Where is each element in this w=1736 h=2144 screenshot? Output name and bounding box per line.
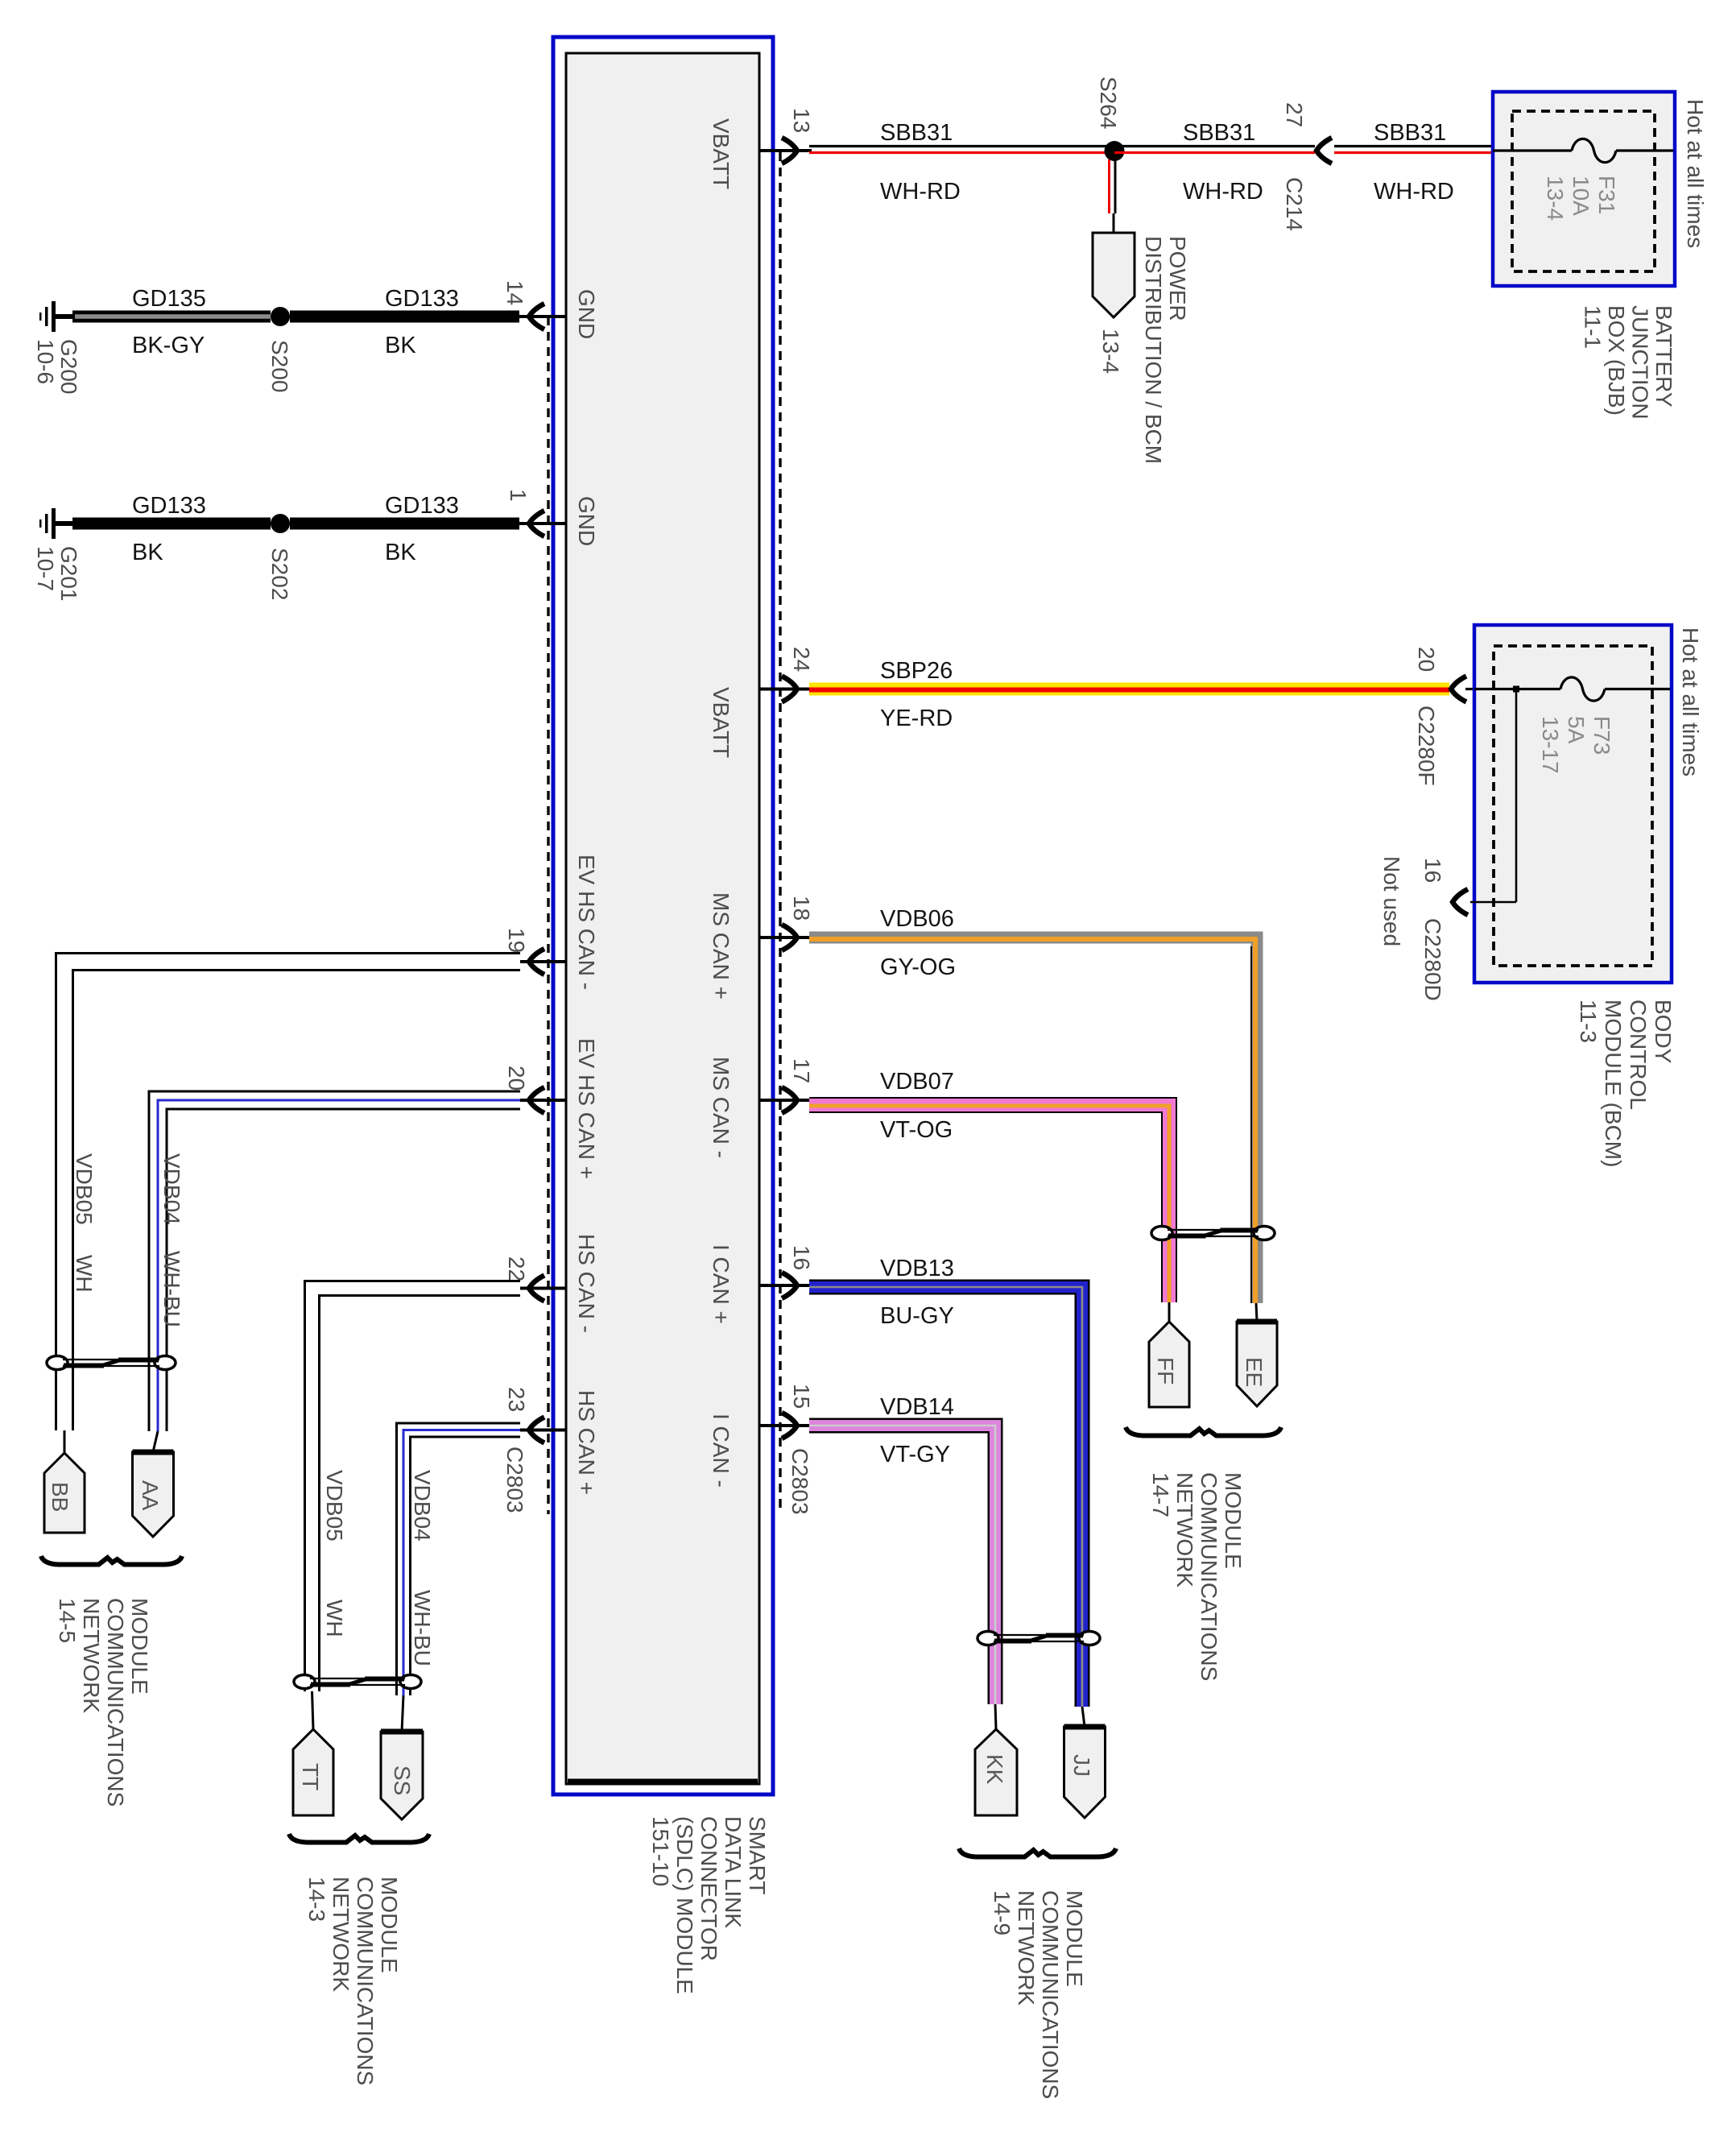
connector C2803 label (right): [787, 1448, 812, 1515]
svg-text:JUNCTION: JUNCTION: [1628, 305, 1653, 420]
svg-text:JJ: JJ: [1069, 1754, 1094, 1777]
svg-text:BK-GY: BK-GY: [132, 333, 205, 358]
svg-text:HS CAN +: HS CAN +: [574, 1390, 599, 1495]
svg-text:EE: EE: [1242, 1357, 1267, 1387]
pin 14 number: [502, 280, 527, 305]
svg-text:S202: S202: [267, 548, 292, 600]
svg-text:BK: BK: [385, 333, 416, 358]
svg-text:I CAN +: I CAN +: [709, 1244, 734, 1324]
module communications network 14-5 label: [55, 1598, 152, 1807]
fuse F73: [1560, 677, 1605, 701]
SDLC module box outline: [553, 37, 773, 1794]
pin 17 stub: [759, 1099, 812, 1102]
brace KK/JJ: [959, 1848, 1116, 1857]
pin 15 stub: [759, 1424, 812, 1427]
pin 13 terminal arrow: [782, 138, 797, 163]
pin 14 stub: [518, 315, 566, 318]
svg-text:11-3: 11-3: [1576, 1000, 1601, 1043]
svg-text:WH-RD: WH-RD: [880, 179, 961, 205]
connector C214 label: [1282, 177, 1307, 231]
wire GD133 BK (right segment): [290, 311, 519, 323]
Not used label: [1379, 856, 1404, 946]
svg-text:MODULE: MODULE: [377, 1877, 402, 1973]
svg-text:VDB13: VDB13: [880, 1256, 954, 1281]
wire VDB05 WH labels (pin 19): [72, 1153, 97, 1225]
S264 branch down: [1108, 159, 1110, 213]
connector TT: [293, 1729, 333, 1815]
wire VDB05 WH (pair): [64, 962, 520, 1430]
pin 23 terminal arrow: [529, 1418, 544, 1443]
BCM pin 20 arrow: [1451, 677, 1466, 702]
svg-text:Hot at all times: Hot at all times: [1678, 627, 1703, 776]
pin 22 number: [504, 1256, 529, 1281]
twisted pair crossing (FF/EE): [1151, 1227, 1172, 1240]
svg-text:23: 23: [504, 1387, 529, 1412]
wire VDB04 WH-BU (pair w/ blue): [158, 1100, 520, 1431]
svg-text:13-17: 13-17: [1538, 716, 1563, 774]
svg-text:S264: S264: [1096, 77, 1121, 129]
svg-text:WH: WH: [72, 1255, 97, 1293]
svg-text:DISTRIBUTION / BCM: DISTRIBUTION / BCM: [1141, 236, 1166, 464]
connector JJ label: [1069, 1754, 1094, 1777]
connector C2280D label: [1420, 918, 1445, 1001]
page ref 13-4 label: [1098, 329, 1123, 374]
svg-text:17: 17: [789, 1058, 814, 1083]
BJB name label: [1581, 305, 1677, 420]
svg-text:MODULE: MODULE: [127, 1598, 152, 1695]
svg-text:11-1: 11-1: [1581, 305, 1606, 349]
connector POWER DISTRIBUTION / BCM: [1093, 233, 1135, 317]
svg-text:VBATT: VBATT: [709, 687, 734, 758]
svg-text:15: 15: [789, 1384, 814, 1409]
wire GD133 BK (right segment): [290, 518, 519, 530]
twisted pair crossing (TT/SS): [294, 1675, 315, 1689]
twisted pair crossing (BB/AA): [47, 1356, 68, 1370]
connector AA label: [138, 1480, 163, 1511]
pin 19 number: [504, 928, 529, 953]
svg-text:GD135: GD135: [132, 286, 206, 312]
svg-text:BB: BB: [48, 1482, 72, 1512]
svg-text:14-3: 14-3: [304, 1877, 329, 1922]
pin 14 terminal arrow: [529, 304, 544, 329]
svg-text:SBB31: SBB31: [1374, 120, 1446, 146]
svg-text:FF: FF: [1153, 1357, 1178, 1384]
svg-text:VT-OG: VT-OG: [880, 1117, 953, 1143]
svg-text:VDB04: VDB04: [410, 1470, 435, 1542]
svg-text:10-7: 10-7: [33, 546, 58, 591]
svg-text:Hot at all times: Hot at all times: [1683, 99, 1708, 248]
svg-text:19: 19: [504, 928, 529, 953]
battery junction box (BJB): [1493, 92, 1675, 286]
svg-text:GND: GND: [574, 289, 599, 339]
svg-text:BU-GY: BU-GY: [880, 1303, 954, 1329]
wire GD135 BK-GY: [72, 311, 271, 323]
wire SBP26 YE-RD: [809, 683, 1449, 696]
pin 20 stub: [518, 1099, 566, 1102]
in-line connector C214 arrow: [1316, 138, 1332, 163]
module communications network 14-7 label: [1148, 1472, 1246, 1681]
svg-text:Not used: Not used: [1379, 856, 1404, 946]
connector AA: [133, 1452, 174, 1537]
svg-text:SS: SS: [390, 1765, 415, 1795]
svg-text:COMMUNICATIONS: COMMUNICATIONS: [353, 1877, 378, 2085]
svg-text:AA: AA: [138, 1480, 163, 1511]
pin 24 terminal arrow: [782, 677, 797, 702]
svg-text:13-4: 13-4: [1543, 176, 1568, 221]
svg-text:151-10: 151-10: [648, 1816, 673, 1886]
svg-text:VDB14: VDB14: [880, 1394, 954, 1420]
splice S200: [271, 307, 290, 326]
pin 17 terminal arrow: [782, 1087, 797, 1113]
svg-text:MODULE (BCM): MODULE (BCM): [1601, 1000, 1626, 1167]
svg-text:16: 16: [789, 1245, 814, 1270]
pin 23 number: [504, 1387, 529, 1412]
svg-text:HS CAN -: HS CAN -: [574, 1234, 599, 1333]
connector C2803 label (left): [502, 1447, 527, 1513]
wire SBB31 WH-RD segment 3: [1334, 145, 1493, 147]
svg-text:I CAN -: I CAN -: [709, 1413, 734, 1488]
svg-text:SBB31: SBB31: [1183, 120, 1255, 146]
svg-text:EV HS CAN -: EV HS CAN -: [574, 855, 599, 990]
wire SBB31 WH-RD segment 1: [809, 145, 1114, 147]
connector FF: [1149, 1322, 1189, 1407]
svg-text:1: 1: [506, 489, 531, 502]
ground G201 label: [33, 546, 81, 602]
svg-text:VDB05: VDB05: [72, 1153, 97, 1225]
connector BB: [44, 1453, 85, 1533]
svg-text:16: 16: [1420, 858, 1445, 883]
svg-text:10A: 10A: [1569, 176, 1593, 216]
wire VDB14 VT-GY: [809, 1426, 995, 1704]
svg-text:20: 20: [504, 1066, 529, 1091]
svg-text:G201: G201: [56, 546, 81, 602]
svg-text:GD133: GD133: [385, 493, 459, 519]
svg-text:BATTERY: BATTERY: [1651, 305, 1676, 408]
connector SS label: [390, 1765, 415, 1795]
SDLC module name label: [648, 1816, 770, 1994]
pin 1 number: [506, 489, 531, 502]
BCM name label: [1576, 1000, 1676, 1167]
connector TT label: [298, 1763, 323, 1790]
brace FF/EE: [1126, 1427, 1281, 1436]
connector BB label: [48, 1482, 72, 1512]
svg-text:VBATT: VBATT: [709, 118, 734, 189]
svg-text:BOX (BJB): BOX (BJB): [1604, 305, 1629, 416]
wire VDB13 BU-GY: [809, 1287, 1082, 1707]
pin 22 stub: [518, 1287, 566, 1290]
fuse F31 label: [1543, 176, 1619, 221]
svg-text:F73: F73: [1589, 716, 1614, 755]
svg-text:13-4: 13-4: [1098, 329, 1123, 374]
BCM pin 16 number: [1420, 858, 1445, 883]
svg-text:VDB07: VDB07: [880, 1069, 954, 1095]
svg-text:GD133: GD133: [132, 493, 206, 519]
svg-text:EV HS CAN +: EV HS CAN +: [574, 1038, 599, 1179]
svg-text:5A: 5A: [1564, 716, 1589, 744]
svg-text:MODULE: MODULE: [1062, 1890, 1087, 1987]
svg-text:18: 18: [789, 896, 814, 921]
wire VDB05 WH labels (pin 22): [322, 1470, 347, 1542]
wire VDB05 WH (pair): [312, 1289, 521, 1692]
svg-text:NETWORK: NETWORK: [1172, 1472, 1197, 1587]
svg-text:14: 14: [502, 280, 527, 305]
svg-text:DATA LINK: DATA LINK: [721, 1816, 746, 1928]
svg-text:WH-BU: WH-BU: [159, 1251, 184, 1327]
svg-text:C2280F: C2280F: [1414, 706, 1439, 786]
svg-text:VT-GY: VT-GY: [880, 1442, 950, 1467]
fuse F73 label: [1538, 716, 1614, 774]
pin 16 number: [789, 1245, 814, 1270]
splice S202 label: [267, 548, 292, 600]
svg-text:(SDLC) MODULE: (SDLC) MODULE: [672, 1816, 697, 1994]
fuse F31: [1572, 139, 1616, 162]
pin 23 stub: [518, 1429, 566, 1432]
pin 18 stub: [759, 936, 812, 939]
svg-text:14-9: 14-9: [990, 1890, 1015, 1935]
connector EE label: [1242, 1357, 1267, 1387]
svg-text:24: 24: [789, 647, 814, 672]
splice S264 label: [1096, 77, 1121, 129]
svg-text:VDB05: VDB05: [322, 1470, 347, 1542]
connector EE: [1237, 1322, 1277, 1406]
pin 1 terminal arrow: [529, 511, 544, 536]
pin 24 number: [789, 647, 814, 672]
svg-text:14-7: 14-7: [1148, 1472, 1173, 1517]
pin 13 number: [789, 108, 814, 133]
pin 15 number: [789, 1384, 814, 1409]
pin 20 terminal arrow: [529, 1087, 544, 1113]
svg-text:KK: KK: [982, 1754, 1007, 1785]
BCM pin 20 number: [1414, 647, 1439, 672]
svg-text:22: 22: [504, 1256, 529, 1281]
pin 19 stub: [518, 960, 566, 963]
svg-text:C2280D: C2280D: [1420, 918, 1445, 1001]
svg-text:WH-RD: WH-RD: [1183, 179, 1263, 205]
pin 20 number: [504, 1066, 529, 1091]
pin 22 terminal arrow: [529, 1276, 544, 1302]
pin 18 number: [789, 896, 814, 921]
svg-text:WH-RD: WH-RD: [1374, 179, 1454, 205]
brace BB/AA: [41, 1556, 182, 1565]
svg-text:G200: G200: [56, 339, 81, 395]
svg-text:POWER: POWER: [1165, 236, 1190, 321]
svg-text:CONNECTOR: CONNECTOR: [696, 1816, 721, 1961]
svg-text:VDB06: VDB06: [880, 906, 954, 932]
svg-text:14-5: 14-5: [55, 1598, 80, 1643]
svg-text:SBP26: SBP26: [880, 658, 953, 684]
wire VDB04 WH-BU labels (pin 20): [159, 1153, 184, 1225]
splice S200 label: [267, 340, 292, 392]
pin 15 terminal arrow: [782, 1413, 797, 1438]
BCM pin 16 arrow (Not used): [1453, 889, 1468, 915]
connector C2803 dashed line left: [547, 317, 549, 1514]
wire SBB31 WH-RD segment 2: [1114, 145, 1315, 147]
svg-text:TT: TT: [298, 1763, 323, 1790]
svg-text:20: 20: [1414, 647, 1439, 672]
svg-text:BK: BK: [385, 540, 416, 565]
splice S264: [1105, 141, 1125, 161]
svg-text:MODULE: MODULE: [1221, 1472, 1246, 1569]
Hot at all times (BJB): [1683, 99, 1708, 248]
svg-text:C2803: C2803: [502, 1447, 527, 1513]
BCM internal branch to pin 16: [1513, 686, 1519, 693]
pin 17 number: [789, 1058, 814, 1083]
svg-text:COMMUNICATIONS: COMMUNICATIONS: [103, 1598, 128, 1807]
svg-text:COMMUNICATIONS: COMMUNICATIONS: [1038, 1890, 1063, 2099]
svg-text:NETWORK: NETWORK: [79, 1598, 104, 1713]
module pin name labels: [574, 289, 599, 339]
svg-text:27: 27: [1282, 102, 1307, 127]
svg-text:CONTROL: CONTROL: [1626, 1000, 1651, 1110]
connector KK label: [982, 1754, 1007, 1785]
svg-text:S200: S200: [267, 340, 292, 392]
svg-text:WH-BU: WH-BU: [410, 1590, 435, 1666]
svg-text:MS CAN -: MS CAN -: [709, 1057, 734, 1158]
module communications network 14-9 label: [990, 1890, 1087, 2099]
svg-text:C214: C214: [1282, 177, 1307, 231]
ground G201: [52, 508, 56, 539]
pin 27 number: [1282, 102, 1307, 127]
pin 1 stub: [518, 522, 566, 525]
svg-text:SBB31: SBB31: [880, 120, 953, 146]
svg-text:BODY: BODY: [1651, 1000, 1676, 1064]
ground G200: [52, 301, 56, 332]
body control module (BCM): [1474, 625, 1672, 983]
svg-text:COMMUNICATIONS: COMMUNICATIONS: [1197, 1472, 1221, 1681]
svg-text:NETWORK: NETWORK: [329, 1877, 353, 1992]
connector FF label: [1153, 1357, 1178, 1384]
svg-text:VDB04: VDB04: [159, 1153, 184, 1225]
ground G200 label: [33, 339, 81, 395]
svg-text:MS CAN +: MS CAN +: [709, 892, 734, 1000]
pin 16 terminal arrow: [782, 1273, 797, 1298]
svg-text:SMART: SMART: [745, 1816, 770, 1895]
svg-text:GD133: GD133: [385, 286, 459, 312]
wire VDB04 WH-BU labels (pin 23): [410, 1470, 435, 1542]
svg-text:WH: WH: [322, 1600, 347, 1637]
pin 13 stub: [759, 149, 812, 152]
connector C2803 dashed line right: [779, 152, 781, 1514]
wire VDB06 GY-OG: [809, 937, 1257, 1303]
Hot at all times (BCM): [1678, 627, 1703, 776]
svg-text:BK: BK: [132, 540, 163, 565]
svg-text:GND: GND: [574, 496, 599, 546]
svg-text:13: 13: [789, 108, 814, 133]
wire GD133 BK (left segment): [72, 518, 271, 530]
wire VDB04 WH-BU: [403, 1430, 520, 1696]
splice S202: [271, 514, 290, 533]
svg-text:F31: F31: [1594, 176, 1619, 214]
brace TT/SS: [289, 1834, 429, 1843]
module communications network 14-3 label: [304, 1877, 402, 2085]
pin 24 stub: [759, 688, 812, 691]
connector JJ: [1064, 1727, 1106, 1818]
connector C2280F label: [1414, 706, 1439, 786]
svg-text:10-6: 10-6: [33, 339, 58, 384]
svg-text:NETWORK: NETWORK: [1014, 1890, 1039, 2005]
twisted pair crossing (KK/JJ): [978, 1632, 998, 1645]
wire VDB07 VT-OG: [809, 1105, 1169, 1302]
svg-text:YE-RD: YE-RD: [880, 706, 953, 731]
pin 18 terminal arrow: [782, 925, 797, 950]
svg-text:GY-OG: GY-OG: [880, 954, 956, 980]
connector SS: [381, 1732, 423, 1819]
pin 16 stub: [759, 1284, 812, 1287]
connector KK: [975, 1729, 1017, 1815]
svg-text:C2803: C2803: [787, 1448, 812, 1515]
pin 19 terminal arrow: [529, 949, 544, 975]
